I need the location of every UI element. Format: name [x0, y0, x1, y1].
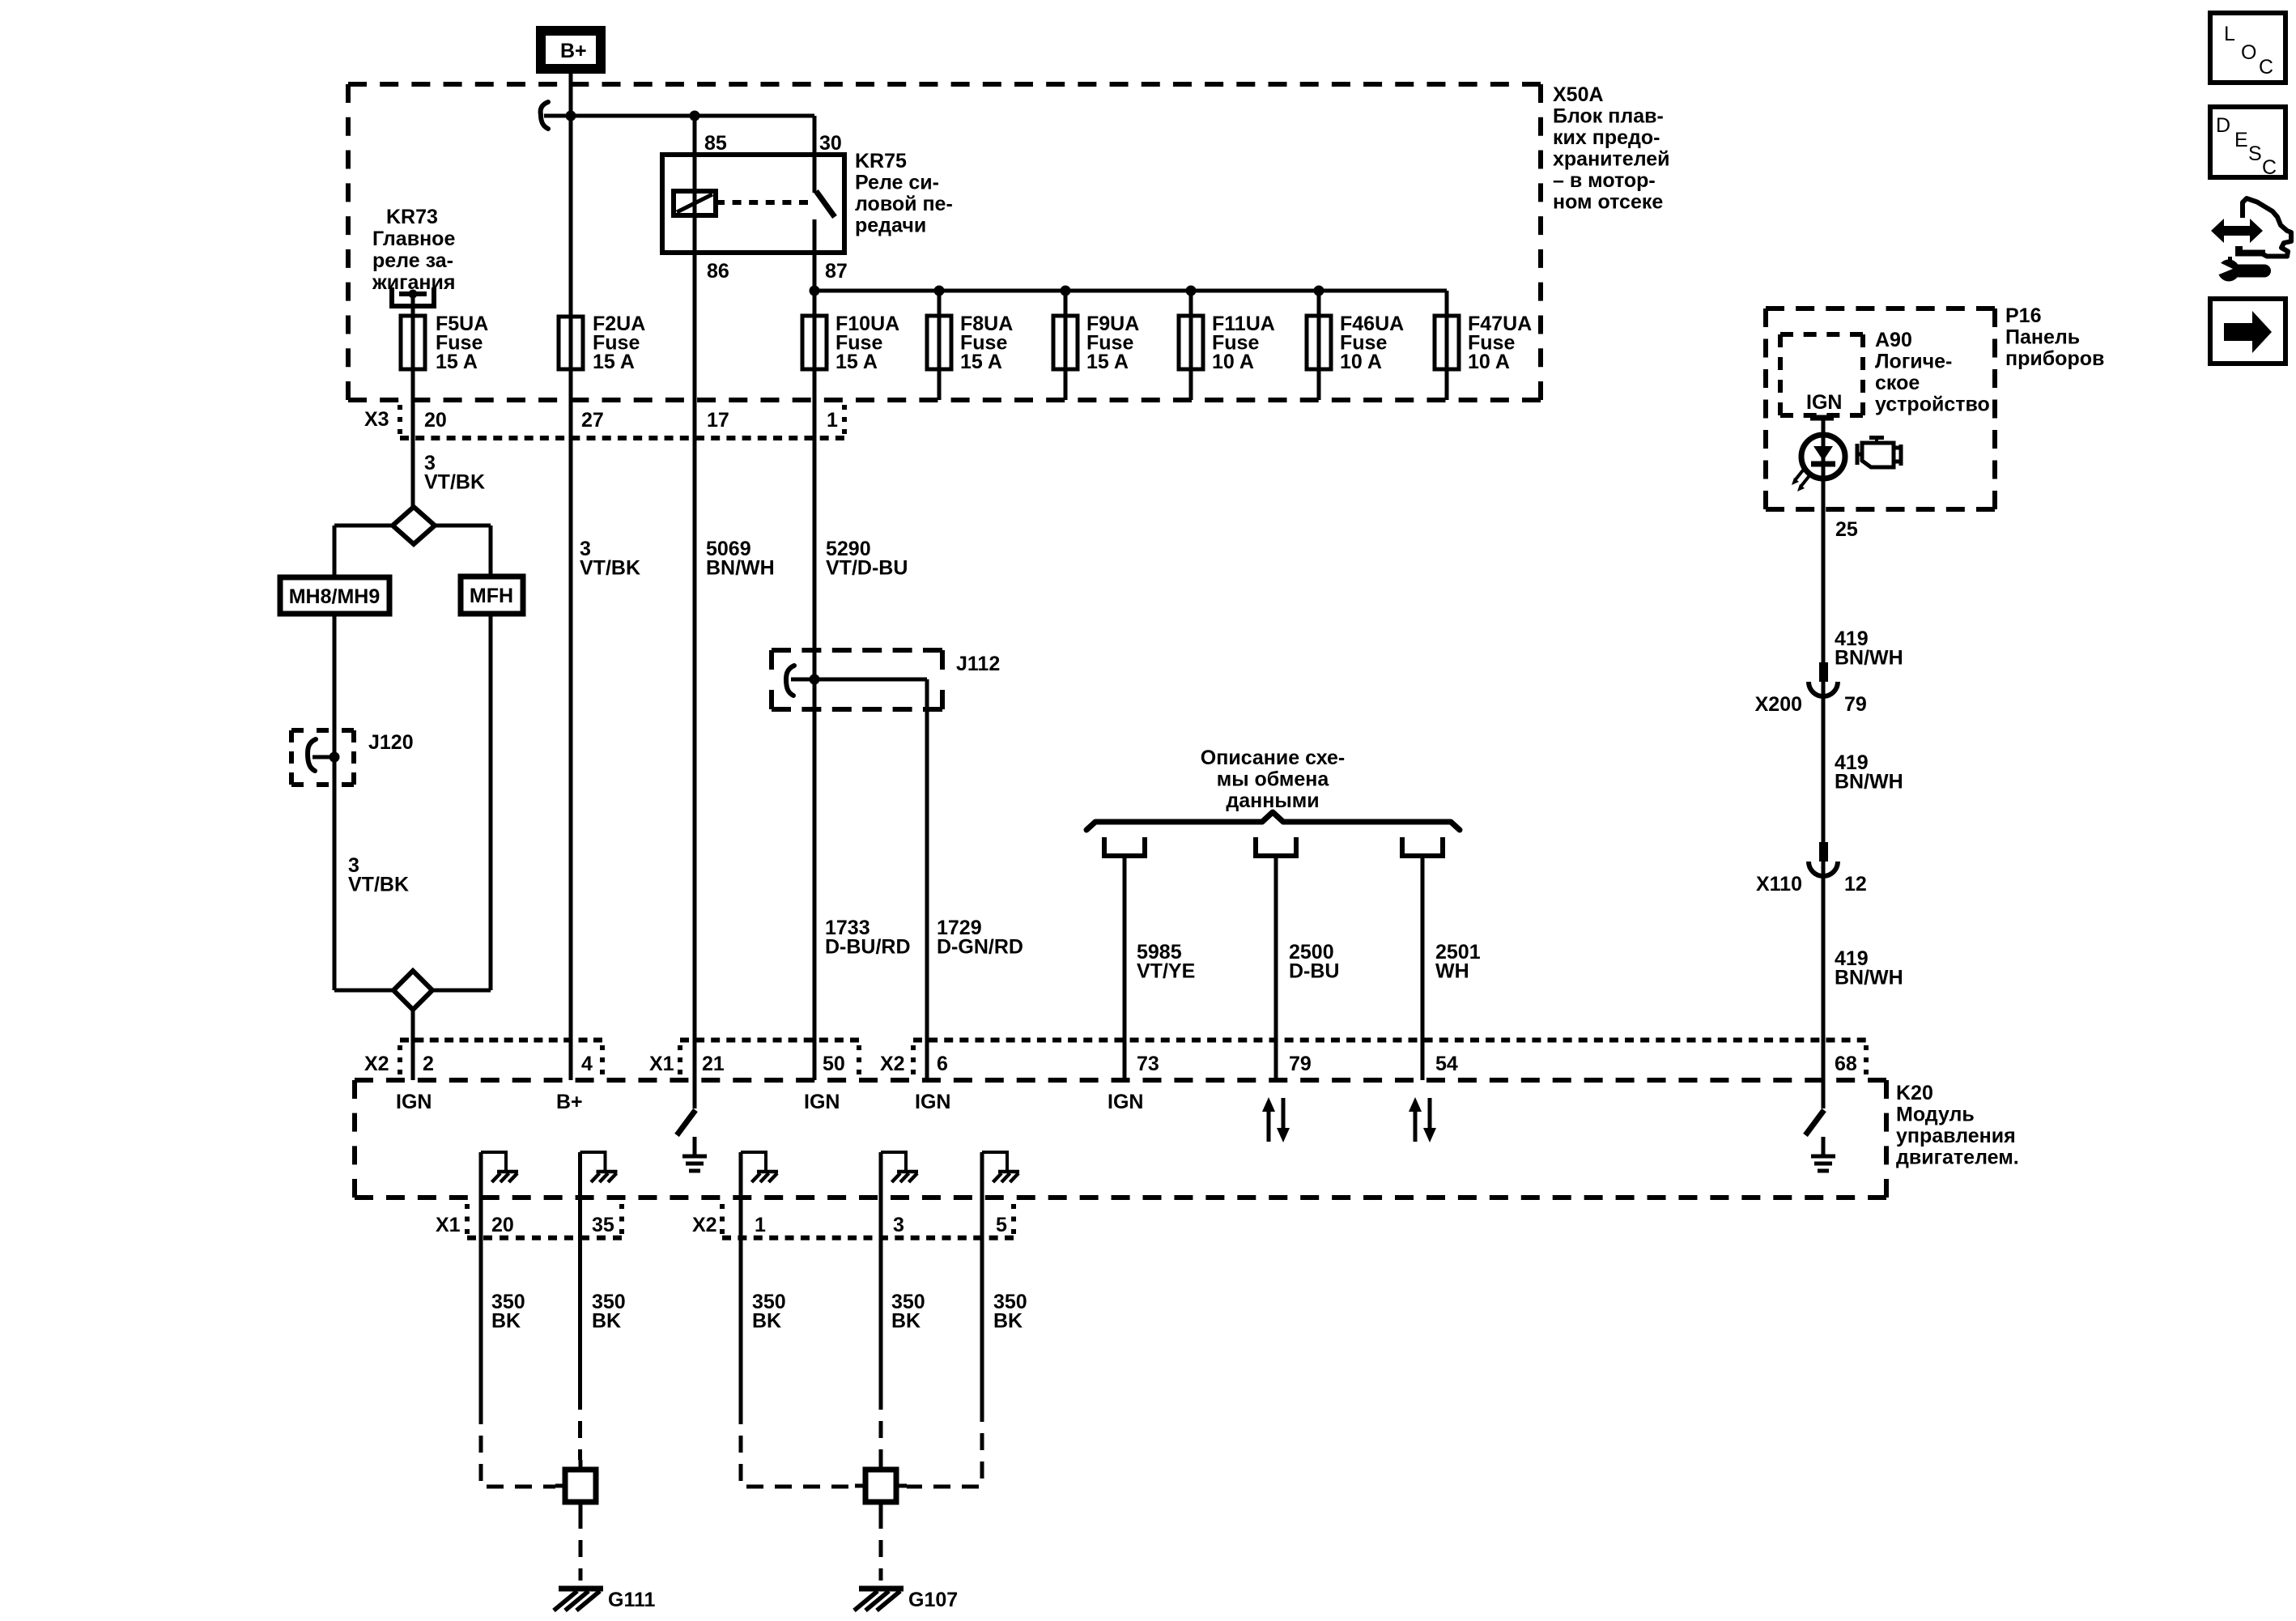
svg-text:J120: J120 [368, 731, 414, 754]
svg-text:мы обмена: мы обмена [1217, 768, 1330, 791]
svg-text:O: O [2241, 41, 2256, 64]
svg-text:A90: A90 [1875, 329, 1912, 351]
svg-text:X50A: X50A [1553, 83, 1604, 106]
svg-text:C: C [2262, 156, 2277, 179]
svg-text:21: 21 [702, 1053, 725, 1075]
svg-text:1: 1 [755, 1214, 766, 1236]
svg-text:ское: ское [1875, 372, 1920, 394]
svg-text:3: 3 [893, 1214, 904, 1236]
svg-text:X2: X2 [692, 1214, 717, 1236]
svg-text:приборов: приборов [2005, 347, 2104, 370]
svg-text:D-BU/RD: D-BU/RD [825, 936, 911, 959]
svg-text:54: 54 [1435, 1053, 1458, 1075]
svg-text:J112: J112 [956, 653, 1000, 675]
svg-text:Блок плав-: Блок плав- [1553, 105, 1664, 128]
svg-text:BK: BK [993, 1310, 1023, 1333]
svg-text:X2: X2 [880, 1053, 905, 1075]
svg-text:KR75: KR75 [855, 150, 907, 172]
svg-text:B+: B+ [560, 40, 587, 62]
svg-text:ном отсеке: ном отсеке [1553, 191, 1663, 214]
svg-text:5: 5 [996, 1214, 1007, 1236]
svg-text:устройство: устройство [1875, 394, 1990, 416]
svg-text:MFH: MFH [470, 585, 513, 607]
svg-text:10 A: 10 A [1212, 351, 1254, 373]
svg-text:редачи: редачи [855, 215, 926, 237]
svg-text:– в мотор-: – в мотор- [1553, 169, 1656, 192]
svg-text:ких предо-: ких предо- [1553, 126, 1660, 149]
svg-text:BK: BK [752, 1310, 781, 1333]
svg-text:хранителей: хранителей [1553, 148, 1670, 171]
svg-text:E: E [2234, 129, 2248, 151]
svg-text:Описание схе-: Описание схе- [1201, 747, 1345, 769]
svg-text:S: S [2248, 143, 2262, 165]
svg-text:IGN: IGN [1806, 391, 1842, 414]
svg-text:Панель: Панель [2005, 326, 2080, 349]
svg-text:BK: BK [891, 1310, 921, 1333]
svg-text:15 A: 15 A [835, 351, 878, 373]
svg-text:IGN: IGN [396, 1091, 432, 1113]
svg-text:MH8/MH9: MH8/MH9 [289, 585, 381, 608]
svg-text:87: 87 [825, 260, 848, 283]
svg-text:X2: X2 [364, 1053, 389, 1075]
svg-text:15 A: 15 A [1086, 351, 1129, 373]
svg-text:79: 79 [1844, 693, 1867, 716]
svg-text:X200: X200 [1755, 693, 1802, 716]
svg-text:VT/YE: VT/YE [1137, 960, 1195, 983]
svg-text:15 A: 15 A [960, 351, 1002, 373]
svg-text:двигателем.: двигателем. [1896, 1147, 2019, 1169]
svg-text:D-GN/RD: D-GN/RD [937, 936, 1023, 959]
svg-text:10 A: 10 A [1468, 351, 1510, 373]
svg-text:управления: управления [1896, 1125, 2016, 1147]
svg-text:IGN: IGN [1108, 1091, 1143, 1113]
svg-text:X1: X1 [649, 1053, 674, 1075]
svg-text:C: C [2259, 56, 2273, 79]
svg-text:68: 68 [1835, 1053, 1857, 1075]
svg-text:86: 86 [707, 260, 729, 283]
svg-text:15 A: 15 A [593, 351, 635, 373]
svg-text:12: 12 [1844, 873, 1867, 896]
svg-text:20: 20 [491, 1214, 514, 1236]
svg-text:P16: P16 [2005, 304, 2041, 327]
svg-text:IGN: IGN [915, 1091, 950, 1113]
svg-text:IGN: IGN [804, 1091, 840, 1113]
svg-text:BN/WH: BN/WH [1835, 771, 1903, 793]
svg-text:BK: BK [592, 1310, 621, 1333]
svg-text:VT/BK: VT/BK [580, 557, 640, 580]
svg-text:27: 27 [581, 409, 604, 432]
svg-text:VT/BK: VT/BK [348, 874, 409, 896]
svg-text:G107: G107 [908, 1589, 958, 1611]
svg-text:79: 79 [1289, 1053, 1312, 1075]
svg-text:L: L [2224, 23, 2235, 45]
svg-text:K20: K20 [1896, 1082, 1933, 1104]
svg-text:20: 20 [424, 409, 447, 432]
svg-text:73: 73 [1137, 1053, 1159, 1075]
svg-text:Реле си-: Реле си- [855, 172, 939, 194]
svg-text:D-BU: D-BU [1289, 960, 1340, 983]
svg-text:ловой пе-: ловой пе- [855, 193, 953, 215]
svg-text:85: 85 [704, 132, 727, 155]
svg-text:X110: X110 [1756, 873, 1802, 896]
svg-text:Модуль: Модуль [1896, 1104, 1975, 1126]
svg-text:B+: B+ [556, 1091, 583, 1113]
svg-text:KR73: KR73 [386, 206, 438, 228]
svg-text:Главное: Главное [372, 228, 455, 250]
svg-text:50: 50 [823, 1053, 845, 1075]
svg-text:10 A: 10 A [1340, 351, 1382, 373]
svg-text:25: 25 [1835, 518, 1858, 541]
svg-text:WH: WH [1435, 960, 1469, 983]
svg-text:17: 17 [707, 409, 729, 432]
svg-text:G111: G111 [608, 1589, 655, 1611]
svg-text:VT/BK: VT/BK [424, 471, 485, 494]
svg-text:X1: X1 [436, 1214, 461, 1236]
svg-text:Логиче-: Логиче- [1875, 351, 1952, 373]
svg-text:данными: данными [1226, 789, 1319, 812]
svg-text:BN/WH: BN/WH [1835, 647, 1903, 670]
svg-text:D: D [2216, 114, 2230, 137]
svg-text:35: 35 [592, 1214, 614, 1236]
svg-text:2: 2 [423, 1053, 434, 1075]
svg-text:30: 30 [819, 132, 842, 155]
svg-text:6: 6 [937, 1053, 948, 1075]
svg-text:4: 4 [581, 1053, 593, 1075]
svg-text:BK: BK [491, 1310, 521, 1333]
svg-text:BN/WH: BN/WH [1835, 967, 1903, 989]
svg-text:X3: X3 [364, 408, 389, 431]
svg-text:BN/WH: BN/WH [706, 557, 775, 580]
svg-text:VT/D-BU: VT/D-BU [826, 557, 908, 580]
svg-text:1: 1 [827, 409, 838, 432]
svg-text:15 A: 15 A [436, 351, 478, 373]
svg-text:реле за-: реле за- [372, 249, 453, 272]
